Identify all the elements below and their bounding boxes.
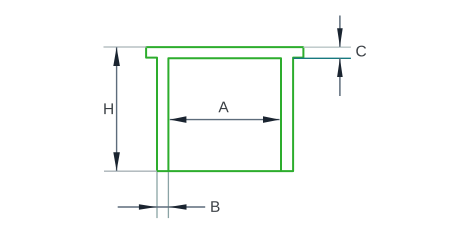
- extension line bottom-left (H lower datum): [104, 170, 157, 172]
- dimension line H (vertical): [116, 47, 118, 171]
- extension line top-left (H upper datum): [104, 46, 147, 48]
- label H: [104, 103, 113, 114]
- arrowhead C lower (points up): [337, 58, 343, 77]
- arrowhead H bottom (points down): [113, 152, 120, 171]
- arrowhead B right (points left): [169, 204, 187, 210]
- arrowhead C upper (points down): [337, 28, 343, 47]
- profile inner outline (cavity walls and inner top): [168, 58, 281, 171]
- extension line C bottom (teal, flange underside datum): [293, 57, 351, 59]
- dimension line A (horizontal, inner width): [170, 119, 280, 121]
- arrowhead B left (points right): [139, 204, 157, 210]
- label A: [218, 102, 228, 113]
- extension line B left (outer wall): [156, 172, 158, 218]
- label C: [356, 46, 366, 57]
- extension line C top (light, flange top datum): [303, 46, 351, 48]
- dimension line B (continuous): [118, 206, 206, 208]
- arrowhead A right (points right): [263, 116, 280, 123]
- dimension line C lower segment: [339, 58, 341, 96]
- arrowhead A left (points left): [170, 116, 187, 123]
- profile outer outline (flange, side walls, bottom edge): [146, 47, 303, 171]
- arrowhead H top (points up): [113, 47, 120, 66]
- extension line B right (inner wall): [167, 172, 169, 218]
- label B: [211, 201, 219, 212]
- dimension line C upper segment: [339, 16, 341, 47]
